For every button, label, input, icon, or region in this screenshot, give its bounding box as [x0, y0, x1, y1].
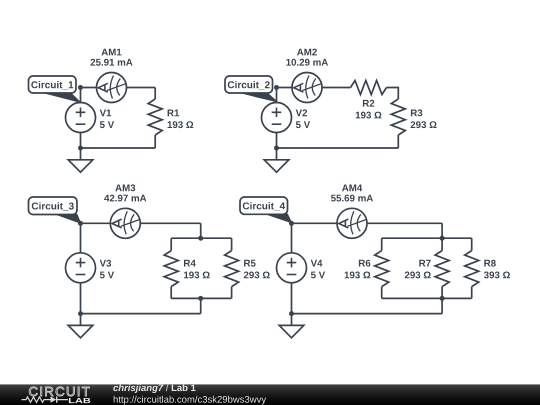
junction V1 negative to ground — [78, 146, 83, 151]
wire V1 top lead — [80, 88, 82, 103]
node flag Circuit_2 — [225, 76, 277, 102]
resistor R2 — [351, 81, 387, 95]
node Circuit_1 junction — [78, 85, 83, 90]
wire top rail circuit 4 (node to bus corner) — [292, 222, 443, 224]
wire R4 top lead — [170, 238, 172, 250]
wire bus to rail drop circuit 3 — [200, 298, 202, 313]
ground GND2 — [264, 160, 289, 172]
ground GND3 — [68, 325, 93, 337]
wire V2 bottom lead — [276, 132, 278, 148]
value R6 193 ohm — [345, 272, 371, 279]
junction top bus circuit 4 — [440, 236, 445, 241]
wire R6 bottom lead — [381, 287, 383, 299]
wire bottom rail circuit 1 — [81, 147, 156, 149]
value R3 293 ohm — [411, 121, 437, 128]
CircuitLab logo word CIRCUIT — [29, 387, 89, 396]
value R7 293 ohm — [405, 272, 431, 279]
node flag Circuit_1 — [29, 76, 81, 102]
label AM1 name — [102, 49, 122, 56]
junction V4 negative to ground — [289, 311, 294, 316]
label R7 name — [419, 260, 430, 267]
voltage source V4 — [277, 253, 307, 283]
wire top rail circuit 3 (node to bus corner) — [81, 222, 201, 224]
wire R5 bottom lead — [231, 287, 233, 299]
value R2 193 ohm — [356, 112, 382, 119]
wire bottom rail circuit 4 — [292, 313, 443, 315]
label R5 name — [244, 260, 256, 267]
label R1 name — [168, 110, 180, 117]
footer bar background — [0, 384, 540, 405]
wire V4 top lead — [291, 223, 293, 253]
wire R7 top lead — [441, 238, 443, 250]
wire bottom rail circuit 3 — [81, 313, 201, 315]
resistor R8 — [465, 251, 479, 287]
wire bus drop circuit 3 — [200, 223, 202, 238]
label R8 name — [484, 260, 496, 267]
ground GND4 — [279, 325, 304, 337]
wire bus to rail drop circuit 4 — [441, 298, 443, 313]
voltage source V1 — [66, 103, 96, 133]
node flag Circuit_3 — [29, 197, 81, 223]
CircuitLab logo word LAB — [69, 398, 90, 403]
label V4 name — [311, 260, 323, 267]
resistor R4 — [164, 251, 178, 287]
wire parallel top bus circuit 4 — [382, 237, 472, 239]
wire V3 bottom lead — [80, 283, 82, 314]
wire R8 top lead — [471, 238, 473, 250]
value R1 193 ohm — [168, 121, 194, 128]
ground GND1 — [68, 160, 93, 172]
wire R2 to R3 corner — [387, 88, 399, 100]
value V3 5 V — [100, 272, 114, 279]
wire ground stem circuit 1 — [80, 148, 82, 160]
label R3 name — [411, 109, 422, 116]
wire top rail circuit 1 (node to R1 top corner) — [81, 87, 156, 89]
label R4 name — [184, 260, 196, 267]
junction top bus circuit 3 — [198, 236, 203, 241]
node Circuit_4 junction — [289, 221, 294, 226]
wire V3 top lead — [80, 223, 82, 253]
wire V2 top lead — [276, 88, 278, 103]
value R5 293 ohm — [244, 272, 270, 279]
CircuitLab logo resistor squiggle and diode — [22, 396, 69, 402]
ammeter AM3 — [110, 208, 140, 238]
value AM4 reading 55.69 mA — [331, 195, 373, 202]
junction bottom bus circuit 3 — [198, 296, 203, 301]
node Circuit_2 junction — [274, 85, 279, 90]
value AM3 reading 42.97 mA — [104, 195, 146, 202]
value R8 393 ohm — [484, 272, 510, 279]
wire R4 bottom lead — [170, 287, 172, 299]
wire V1 bottom lead — [80, 132, 82, 148]
wire V4 bottom lead — [291, 283, 293, 314]
value AM2 reading 10.29 mA — [286, 59, 328, 66]
label AM2 name — [297, 49, 317, 56]
label V3 name — [100, 260, 111, 267]
wire R1 top lead — [154, 88, 156, 100]
wire ground stem circuit 4 — [291, 314, 293, 326]
wire bus drop circuit 4 — [441, 223, 443, 238]
resistor R3 — [391, 99, 405, 135]
junction bottom bus circuit 4 — [440, 296, 445, 301]
wire parallel top bus circuit 3 — [171, 237, 231, 239]
label AM3 name — [115, 184, 135, 191]
junction V3 negative to ground — [78, 311, 83, 316]
value R4 193 ohm — [184, 272, 210, 279]
wire R6 top lead — [381, 238, 383, 250]
footer author line: chrisjiang7 / Lab 1 — [113, 384, 163, 393]
wire bottom rail circuit 2 — [277, 147, 399, 149]
label R2 name — [363, 100, 374, 107]
wire top rail circuit 2 (node to R2) — [277, 87, 351, 89]
value V2 5 V — [296, 121, 310, 128]
value V4 5 V — [311, 272, 325, 279]
ammeter AM4 — [337, 208, 367, 238]
wire R7 bottom lead — [441, 287, 443, 299]
wire ground stem circuit 3 — [80, 314, 82, 326]
value V1 5 V — [100, 121, 114, 128]
wire parallel bottom bus circuit 4 — [382, 297, 472, 299]
wire ground stem circuit 2 — [276, 148, 278, 160]
label V2 name — [296, 109, 307, 116]
junction V2 negative to ground — [274, 146, 279, 151]
resistor R6 — [375, 251, 389, 287]
ammeter AM1 — [97, 73, 127, 103]
wire parallel bottom bus circuit 3 — [171, 297, 231, 299]
resistor R5 — [225, 251, 239, 287]
resistor R1 — [148, 99, 162, 135]
label R6 name — [359, 260, 370, 267]
label V1 name — [100, 110, 112, 117]
resistor R7 — [435, 251, 449, 287]
node Circuit_3 junction — [78, 221, 83, 226]
footer url line — [114, 396, 266, 405]
voltage source V2 — [262, 103, 292, 133]
node flag Circuit_4 — [240, 197, 292, 223]
wire R1 bottom lead — [154, 135, 156, 148]
wire R3 bottom lead — [397, 135, 399, 148]
label AM4 name — [342, 185, 362, 192]
value AM1 reading 25.91 mA — [91, 59, 133, 66]
wire R5 top lead — [231, 238, 233, 250]
ammeter AM2 — [292, 73, 322, 103]
wire R8 bottom lead — [471, 287, 473, 299]
voltage source V3 — [66, 253, 96, 283]
